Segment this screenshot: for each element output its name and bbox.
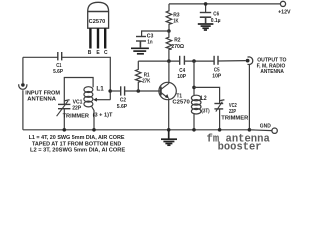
wire to C3 bbox=[142, 31, 169, 36]
resistor R3 bbox=[166, 4, 172, 31]
coil winding note text bbox=[29, 135, 126, 153]
L1 tap arrow bbox=[93, 98, 97, 102]
svg-text:L2: L2 bbox=[201, 96, 207, 102]
resistor R2 bbox=[166, 31, 172, 61]
node R3/R2 junction bbox=[167, 29, 171, 33]
svg-text:1K: 1K bbox=[173, 19, 178, 25]
svg-text:T1: T1 bbox=[177, 93, 183, 99]
svg-text:L2 = 3T, 20SWG 5mm DIA, AI COR: L2 = 3T, 20SWG 5mm DIA, AI CORE bbox=[30, 147, 126, 153]
transistor package outline (TO-92 drawing) bbox=[88, 2, 109, 28]
svg-text:22P: 22P bbox=[229, 109, 236, 115]
trimmer VC1 bbox=[57, 100, 71, 130]
svg-text:10P: 10P bbox=[212, 74, 221, 80]
node output ground bbox=[248, 128, 252, 132]
svg-text:C2: C2 bbox=[120, 98, 126, 104]
transistor T1 bbox=[159, 61, 176, 130]
svg-text:5.6P: 5.6P bbox=[117, 104, 128, 110]
svg-text:C6: C6 bbox=[213, 12, 219, 18]
node L2 bottom bbox=[192, 128, 196, 132]
collector wire horizontal bbox=[138, 60, 179, 62]
capacitor C1 bbox=[58, 52, 62, 60]
package leg E bbox=[97, 28, 99, 48]
package leg C bbox=[104, 28, 106, 48]
svg-text:TRIMMER: TRIMMER bbox=[63, 114, 89, 120]
svg-text:1n: 1n bbox=[147, 40, 153, 46]
ground under C6 bbox=[198, 24, 214, 30]
wire C1 to tap corner bbox=[62, 57, 111, 99]
output jack bbox=[246, 57, 253, 65]
base wire left bbox=[110, 90, 120, 92]
svg-text:(3T): (3T) bbox=[201, 109, 209, 115]
node L2/VC2 top bbox=[192, 86, 196, 90]
svg-text:22P: 22P bbox=[72, 106, 81, 112]
svg-text:10P: 10P bbox=[177, 74, 186, 80]
svg-text:VC1: VC1 bbox=[73, 99, 83, 105]
capacitor C6 bbox=[200, 4, 211, 23]
ground under C3 bbox=[131, 48, 149, 54]
resistor R1 bbox=[136, 61, 142, 91]
node VC2 bottom bbox=[218, 128, 222, 132]
capacitor C2 bbox=[121, 86, 125, 95]
top input wire bbox=[23, 56, 58, 58]
base wire right bbox=[125, 90, 161, 92]
svg-text:TRIMMER: TRIMMER bbox=[221, 115, 248, 121]
node C4/C5 junction bbox=[192, 59, 196, 63]
svg-text:ANTENNA: ANTENNA bbox=[260, 69, 284, 75]
left antenna wire lower bbox=[22, 90, 24, 130]
capacitor C5 bbox=[214, 56, 218, 65]
svg-text:(3 + 1)T: (3 + 1)T bbox=[93, 112, 113, 118]
svg-text:ANTENNA: ANTENNA bbox=[27, 97, 57, 103]
svg-text:C2570: C2570 bbox=[172, 100, 189, 106]
+12V terminal bbox=[280, 1, 285, 6]
svg-text:R1: R1 bbox=[144, 72, 150, 78]
svg-text:0.1µ: 0.1µ bbox=[211, 18, 221, 24]
svg-text:booster: booster bbox=[218, 142, 262, 153]
svg-text:GND: GND bbox=[260, 124, 271, 130]
bottom ground rail bbox=[23, 129, 250, 131]
svg-text:+12V: +12V bbox=[278, 10, 291, 16]
package leg B bbox=[89, 28, 91, 48]
node L1 bottom bbox=[92, 128, 96, 132]
capacitor C4 bbox=[180, 56, 185, 65]
top +12V rail wire bbox=[169, 3, 280, 5]
wire to VC2 bbox=[194, 87, 220, 103]
input jack bbox=[19, 83, 27, 89]
left antenna wire upper bbox=[22, 57, 24, 83]
capacitor C3 bbox=[136, 37, 146, 48]
svg-text:5.6P: 5.6P bbox=[53, 69, 63, 75]
svg-text:L1 = 4T, 20 SWG 5mm DIA, AIR C: L1 = 4T, 20 SWG 5mm DIA, AIR CORE bbox=[29, 135, 125, 141]
svg-text:C5: C5 bbox=[214, 67, 220, 73]
node R1 bottom bbox=[137, 89, 141, 93]
svg-text:270Ω: 270Ω bbox=[171, 44, 184, 50]
svg-text:B: B bbox=[88, 50, 92, 56]
output ground drop wire bbox=[248, 64, 250, 129]
wire C4 to C5 bbox=[185, 60, 214, 62]
svg-text:E: E bbox=[96, 50, 100, 56]
node collector junction bbox=[167, 59, 171, 63]
node tap junction bbox=[108, 89, 112, 93]
node VC1 bottom bbox=[63, 128, 67, 132]
output wire bbox=[218, 60, 246, 62]
tank top wire VC1-L1 bbox=[64, 78, 93, 105]
inductor L2 bbox=[191, 95, 201, 130]
svg-text:C4: C4 bbox=[179, 68, 186, 74]
tap wire bbox=[97, 99, 111, 101]
GND wire and terminal bbox=[249, 129, 272, 132]
inductor L1 bbox=[84, 87, 94, 130]
svg-text:27K: 27K bbox=[142, 79, 150, 85]
L2/VC2 branch vertical bbox=[193, 61, 195, 96]
node emitter bottom bbox=[167, 128, 171, 132]
svg-text:R2: R2 bbox=[174, 37, 180, 43]
svg-text:L1: L1 bbox=[96, 87, 104, 93]
ground symbol at emitter bbox=[161, 130, 177, 145]
svg-text:C2570: C2570 bbox=[89, 19, 106, 25]
svg-text:C: C bbox=[104, 50, 108, 56]
trimmer VC2 bbox=[214, 100, 224, 130]
